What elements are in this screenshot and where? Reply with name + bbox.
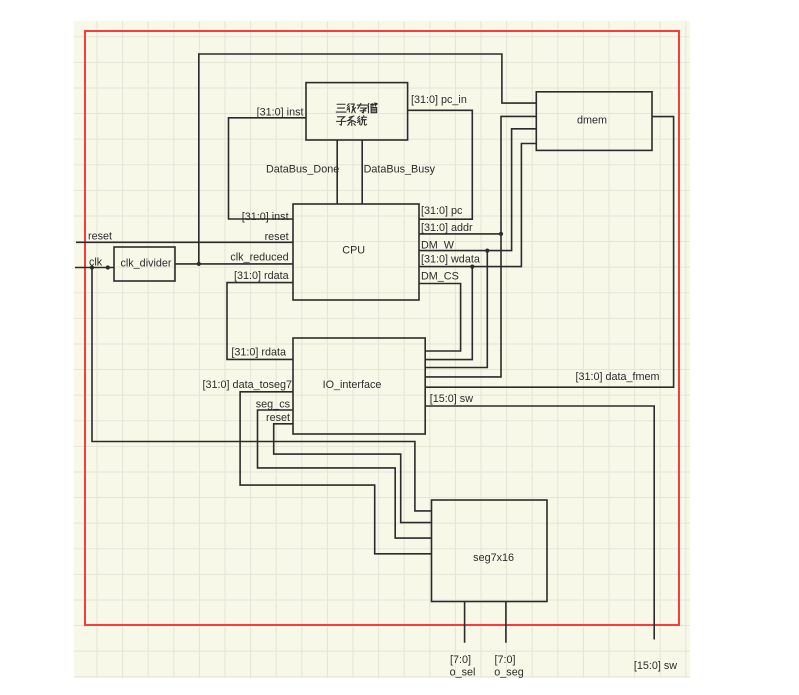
svg-text:reset: reset [265, 231, 289, 243]
svg-text:[31:0] inst: [31:0] inst [257, 107, 304, 119]
svg-text:[31:0] rdata: [31:0] rdata [231, 347, 286, 359]
svg-text:[31:0] wdata: [31:0] wdata [421, 254, 480, 266]
svg-text:DM_CS: DM_CS [421, 271, 459, 283]
svg-text:DataBus_Done: DataBus_Done [266, 164, 339, 176]
svg-text:[15:0] sw: [15:0] sw [634, 660, 677, 672]
svg-text:o_sel: o_sel [450, 667, 476, 679]
svg-text:o_seg: o_seg [494, 667, 523, 679]
svg-text:[31:0] data_fmem: [31:0] data_fmem [576, 371, 660, 383]
svg-text:seg7x16: seg7x16 [473, 552, 514, 564]
svg-text:[31:0] rdata: [31:0] rdata [234, 270, 289, 282]
svg-text:[15:0] sw: [15:0] sw [430, 393, 473, 405]
svg-text:dmem: dmem [577, 115, 607, 127]
svg-text:clk: clk [89, 256, 103, 268]
svg-text:CPU: CPU [342, 245, 365, 257]
svg-text:[31:0] data_toseg7: [31:0] data_toseg7 [203, 379, 292, 391]
svg-text:IO_interface: IO_interface [323, 379, 382, 391]
svg-text:[7:0]: [7:0] [450, 654, 471, 666]
svg-text:DM_W: DM_W [421, 240, 455, 252]
svg-text:clk_reduced: clk_reduced [230, 252, 288, 264]
svg-text:[31:0] inst: [31:0] inst [242, 211, 289, 223]
svg-text:reset: reset [88, 231, 112, 243]
svg-text:reset: reset [266, 412, 290, 424]
svg-text:[31:0] addr: [31:0] addr [421, 222, 473, 234]
svg-text:[7:0]: [7:0] [494, 654, 515, 666]
svg-text:clk_divider: clk_divider [120, 257, 171, 269]
svg-text:[31:0] pc: [31:0] pc [421, 205, 463, 217]
svg-text:[31:0] pc_in: [31:0] pc_in [411, 94, 467, 106]
svg-text:seg_cs: seg_cs [256, 399, 291, 411]
svg-text:DataBus_Busy: DataBus_Busy [364, 164, 436, 176]
